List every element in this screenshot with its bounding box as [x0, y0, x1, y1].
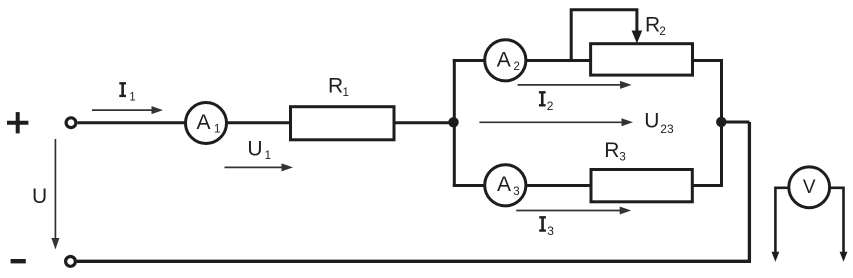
- label U23: [644, 110, 674, 136]
- minus sign (- terminal polarity): [11, 259, 26, 263]
- voltmeter left lead with probe arrow: [775, 188, 788, 253]
- svg-text:R: R: [645, 14, 660, 37]
- ammeter A1: [186, 103, 227, 144]
- label I2: [539, 91, 554, 113]
- svg-text:R: R: [328, 74, 343, 97]
- svg-text:U: U: [644, 110, 659, 133]
- label I3: [539, 216, 554, 238]
- ammeter A2: [485, 40, 526, 81]
- voltmeter right lead with probe arrow: [830, 188, 844, 253]
- label I1: [119, 82, 135, 103]
- ammeter A3: [485, 165, 526, 206]
- label U1: [247, 138, 271, 163]
- label R3: [604, 139, 626, 164]
- svg-text:A: A: [497, 48, 511, 71]
- node A (junction dot): [448, 117, 458, 127]
- current arrow I2: [518, 84, 621, 86]
- svg-text:1: 1: [214, 124, 220, 136]
- label R1: [328, 74, 349, 99]
- svg-text:U: U: [32, 185, 47, 208]
- svg-text:3: 3: [547, 224, 554, 238]
- wire: top branch, riser to ammeter A2: [453, 59, 485, 62]
- negative terminal (open circle): [66, 257, 76, 267]
- wire: A3 to resistor R3: [526, 184, 591, 187]
- svg-text:V: V: [803, 177, 816, 198]
- resistor R1 (rectangle): [291, 107, 395, 140]
- svg-text:R: R: [604, 139, 619, 162]
- wire: R1 to node A: [394, 121, 456, 124]
- wire: bottom return rail: [77, 260, 751, 263]
- node B (junction dot): [716, 117, 726, 127]
- svg-text:U: U: [247, 138, 262, 161]
- positive terminal (open circle): [66, 118, 76, 128]
- resistor R2 (rectangle): [591, 44, 693, 75]
- wire: R2 to right vertical: [693, 59, 723, 62]
- svg-text:A: A: [497, 173, 511, 196]
- current arrow I1: [92, 109, 152, 111]
- wire: left vertical riser of parallel section: [453, 59, 456, 187]
- wire: node B to right corner: [721, 121, 749, 124]
- svg-text:3: 3: [513, 186, 519, 198]
- wire: A1 to resistor R1: [227, 121, 291, 124]
- source voltage arrow U (down): [54, 139, 56, 239]
- plus sign (+ terminal polarity): [7, 112, 28, 133]
- wiper arrow of adjustable resistor R2: [571, 10, 637, 61]
- svg-text:3: 3: [619, 152, 625, 164]
- wire: R3 to right vertical: [692, 184, 722, 187]
- svg-text:1: 1: [129, 92, 135, 104]
- svg-text:2: 2: [659, 26, 665, 38]
- voltage arrow U23: [479, 121, 622, 123]
- voltmeter V: [789, 167, 830, 208]
- wire: right vertical joining branches: [720, 59, 723, 187]
- svg-text:1: 1: [265, 150, 271, 162]
- wire: bottom branch, riser to ammeter A3: [453, 184, 485, 187]
- resistor R3 (rectangle): [591, 170, 692, 202]
- current arrow I3: [516, 210, 620, 212]
- voltage arrow U1: [225, 166, 283, 168]
- svg-text:1: 1: [343, 87, 349, 99]
- svg-text:A: A: [197, 111, 211, 134]
- wire: A2 to resistor R2: [526, 59, 591, 62]
- svg-text:23: 23: [660, 122, 674, 136]
- wire: + terminal to ammeter A1: [78, 121, 186, 124]
- svg-text:2: 2: [514, 61, 520, 73]
- label R2: [645, 14, 666, 38]
- wire: right drop to bottom rail: [748, 122, 751, 261]
- svg-text:2: 2: [547, 99, 554, 113]
